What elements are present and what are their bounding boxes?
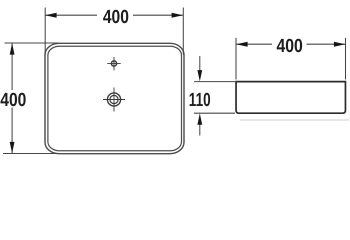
svg-text:400: 400 bbox=[103, 7, 129, 28]
extension line bottom bbox=[194, 112, 235, 114]
extension line top bbox=[5, 42, 59, 44]
basin inner rim (top view) bbox=[48, 46, 182, 151]
extension line right bbox=[345, 38, 347, 80]
extension line left bbox=[235, 38, 237, 80]
side top dimension 400 bbox=[236, 38, 346, 80]
arrow up bbox=[10, 43, 15, 54]
arrow left bbox=[236, 42, 247, 47]
dim line segments bbox=[11, 43, 13, 90]
extension line right bbox=[182, 8, 184, 55]
arrow down bbox=[10, 142, 15, 153]
dim line segments bbox=[236, 43, 272, 45]
faucet hole bbox=[107, 57, 120, 70]
top dimension 400 (basin width) bbox=[45, 8, 183, 55]
drain bbox=[103, 88, 125, 112]
arrow right bbox=[172, 13, 183, 18]
basin outer rim (top view) bbox=[45, 43, 184, 153]
svg-text:400: 400 bbox=[277, 36, 303, 57]
extension line bottom bbox=[3, 153, 59, 155]
side view body bbox=[236, 82, 345, 114]
extension line left bbox=[44, 8, 46, 55]
arrow down (above) bbox=[197, 70, 202, 81]
arrow right bbox=[334, 42, 345, 47]
svg-text:400: 400 bbox=[0, 90, 26, 111]
110 height dimension bbox=[194, 56, 235, 136]
shadow line under side view bbox=[240, 119, 349, 121]
left dimension 400 (basin depth) bbox=[3, 43, 59, 154]
dim line segments bbox=[45, 14, 97, 16]
svg-text:110: 110 bbox=[189, 90, 211, 111]
arrow left bbox=[45, 13, 56, 18]
extension line top bbox=[194, 81, 235, 83]
arrow up (below) bbox=[197, 113, 202, 124]
arrow stems bbox=[199, 56, 201, 72]
